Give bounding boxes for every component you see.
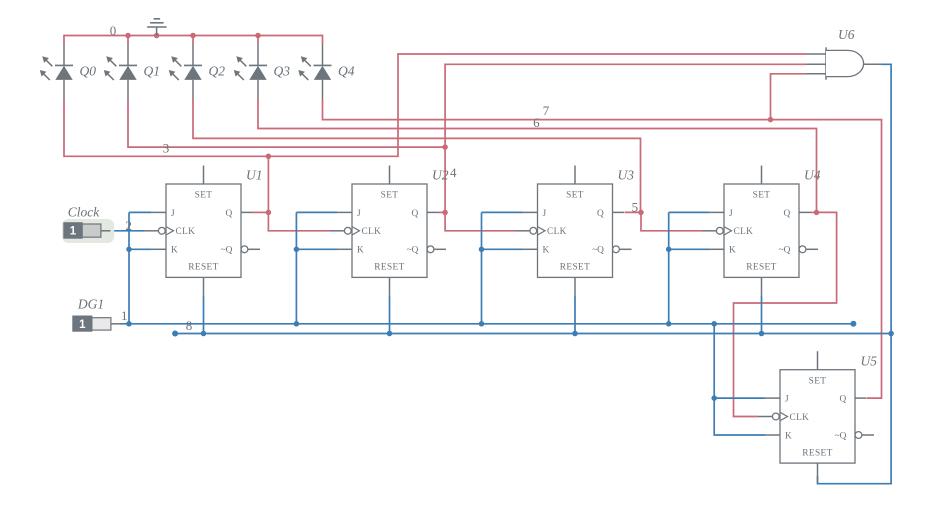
wire: U2.Q down to U3.CLK xyxy=(445,212,515,230)
wire: U4.Q output lead wire xyxy=(811,211,817,213)
ground symbol xyxy=(147,19,167,36)
svg-text:SET: SET xyxy=(566,191,584,201)
junction on net 8 xyxy=(759,331,765,337)
JK flip-flop U4 xyxy=(702,166,818,296)
wire: U2 K input wire xyxy=(296,248,337,250)
svg-text:Q0: Q0 xyxy=(80,63,97,78)
svg-text:J: J xyxy=(729,209,733,219)
svg-text:6: 6 xyxy=(533,115,540,130)
junction U2.Q/L4 xyxy=(442,144,448,150)
wire: LED Q2 top to rail xyxy=(192,36,194,45)
wire: U2 J input wire xyxy=(296,211,337,213)
wire: ground rail net 0 xyxy=(64,36,323,45)
svg-text:CLK: CLK xyxy=(362,227,382,237)
wire: U2.Q output lead wire xyxy=(439,211,446,213)
svg-text:Q: Q xyxy=(225,209,232,219)
svg-text:Q4: Q4 xyxy=(338,63,355,78)
junction K row xyxy=(294,247,300,253)
junction U1.Q xyxy=(266,210,272,216)
LED Q1 xyxy=(104,44,137,99)
AND gate U6 xyxy=(807,47,882,79)
junction net1/U5 tie xyxy=(711,321,717,327)
svg-text:RESET: RESET xyxy=(746,263,776,273)
junction K row xyxy=(126,247,132,253)
junction on ground rail xyxy=(154,33,160,39)
svg-text:J: J xyxy=(543,209,547,219)
svg-text:K: K xyxy=(785,431,792,441)
junction net8/U6 output xyxy=(888,331,894,337)
svg-text:DG1: DG1 xyxy=(77,297,104,312)
svg-text:SET: SET xyxy=(195,191,213,201)
junction U5.J xyxy=(711,395,717,401)
wire: net 7 Q4 LED to U5.Q xyxy=(323,99,882,398)
svg-text:Q: Q xyxy=(411,209,418,219)
svg-text:K: K xyxy=(357,246,364,256)
svg-text:Q3: Q3 xyxy=(274,63,291,78)
svg-text:~Q: ~Q xyxy=(592,246,604,256)
wire: U2.Q vertical up to AND input 2 xyxy=(445,64,806,212)
wire: Q2 LED down to U3.Q xyxy=(193,99,641,212)
svg-text:U4: U4 xyxy=(804,168,821,183)
junction U1.Q/L5 xyxy=(266,154,272,160)
wire: U3 K input wire xyxy=(482,248,523,250)
wire: U3 J/K tie-down vertical xyxy=(481,212,483,323)
svg-text:J: J xyxy=(785,395,789,405)
wire: U3 J input wire xyxy=(482,211,523,213)
svg-text:Q: Q xyxy=(783,209,790,219)
svg-text:J: J xyxy=(171,209,175,219)
svg-text:1: 1 xyxy=(70,226,77,238)
wire: U4 J input wire xyxy=(669,211,709,213)
svg-text:2: 2 xyxy=(125,218,132,233)
svg-text:J: J xyxy=(357,209,361,219)
svg-text:K: K xyxy=(171,246,178,256)
svg-text:RESET: RESET xyxy=(560,263,590,273)
svg-text:U2: U2 xyxy=(432,168,449,183)
digital constant DG1 xyxy=(73,316,121,331)
wire: net 2 Clock to U1.CLK xyxy=(111,230,145,232)
LED Q0 xyxy=(40,44,73,99)
junction U3.Q xyxy=(638,210,644,216)
svg-text:Q1: Q1 xyxy=(144,63,161,78)
wire: U1 RESET drop to net 8 xyxy=(203,296,205,334)
svg-text:~Q: ~Q xyxy=(221,246,233,256)
svg-text:U1: U1 xyxy=(246,168,263,183)
svg-text:U6: U6 xyxy=(838,27,855,42)
svg-text:CLK: CLK xyxy=(734,227,754,237)
junction on net 1 xyxy=(126,321,132,327)
wire: U1 K input wire xyxy=(129,248,151,250)
svg-text:3: 3 xyxy=(163,141,170,156)
junction U2.Q xyxy=(442,210,448,216)
svg-text:CLK: CLK xyxy=(790,413,810,423)
wire end on net 1 xyxy=(850,321,856,327)
wire: LED Q3 top to rail xyxy=(257,36,259,45)
svg-text:7: 7 xyxy=(543,103,550,118)
svg-text:RESET: RESET xyxy=(802,448,832,458)
wire: U4 K input wire xyxy=(669,248,709,250)
svg-text:Clock: Clock xyxy=(68,205,100,220)
junction K row xyxy=(479,247,485,253)
wire: U4 J/K tie-down vertical xyxy=(668,212,670,323)
svg-text:RESET: RESET xyxy=(188,263,218,273)
svg-text:4: 4 xyxy=(450,165,457,180)
wire: U1 J input wire xyxy=(129,211,151,213)
svg-text:SET: SET xyxy=(381,191,399,201)
svg-text:~Q: ~Q xyxy=(835,431,847,441)
svg-text:U3: U3 xyxy=(618,168,635,183)
junction on ground rail xyxy=(255,33,261,39)
JK flip-flop U3 xyxy=(516,166,632,296)
svg-text:Q: Q xyxy=(597,209,604,219)
svg-text:RESET: RESET xyxy=(374,263,404,273)
wire: net 1 DG1 bus line xyxy=(121,323,854,325)
wire: U4 RESET drop to net 8 xyxy=(761,296,763,334)
wire: LED Q1 top to rail xyxy=(127,36,129,45)
svg-text:1: 1 xyxy=(79,319,86,331)
JK flip-flop U2 xyxy=(330,166,446,296)
wire: net 7 branch up to AND input 3 xyxy=(771,74,807,120)
LED Q2 xyxy=(169,44,202,99)
wire: Q3 LED down to U4.Q xyxy=(258,99,817,212)
svg-text:CLK: CLK xyxy=(176,227,196,237)
junction on net 1 xyxy=(294,321,300,327)
svg-text:5: 5 xyxy=(632,200,639,215)
LED Q3 xyxy=(234,44,267,99)
wire: U2 RESET drop to net 8 xyxy=(389,296,391,334)
svg-text:U5: U5 xyxy=(861,353,878,368)
junction net7/AND input3 xyxy=(768,117,774,123)
LED Q4 xyxy=(298,44,331,99)
wire: U6 output to net 8 and U5.RESET xyxy=(818,64,892,483)
svg-text:1: 1 xyxy=(121,308,128,323)
wire: U3.Q down to U4.CLK xyxy=(641,212,702,230)
wire: Q1 LED down to net of U2.Q xyxy=(128,99,445,147)
junction on net 8 xyxy=(572,331,578,337)
svg-text:Q2: Q2 xyxy=(209,63,226,78)
svg-text:8: 8 xyxy=(186,318,193,333)
svg-text:0: 0 xyxy=(110,23,117,38)
wire: U3 RESET drop to net 8 xyxy=(574,296,576,334)
junction on net 8 xyxy=(387,331,393,337)
svg-text:SET: SET xyxy=(753,191,771,201)
junction on net 8 xyxy=(201,331,207,337)
svg-text:K: K xyxy=(543,246,550,256)
junction K row xyxy=(666,247,672,253)
wire end on net 8 xyxy=(172,331,178,337)
svg-text:~Q: ~Q xyxy=(407,246,419,256)
wire: U5 J/K tie vertical from net 1 xyxy=(714,324,765,435)
svg-text:~Q: ~Q xyxy=(779,246,791,256)
svg-text:SET: SET xyxy=(809,376,827,386)
junction on ground rail xyxy=(190,33,196,39)
junction on ground rail xyxy=(125,33,131,39)
junction on net 1 xyxy=(479,321,485,327)
svg-text:K: K xyxy=(729,246,736,256)
wire: U5 J input wire xyxy=(714,397,765,399)
wire: U1 J/K tie-down vertical xyxy=(128,212,130,323)
wire: net 3? Q0 LED to U1.Q line and AND input 1 xyxy=(64,54,807,156)
clock source Clock xyxy=(62,219,114,243)
wire: U4.Q to U5.CLK xyxy=(734,212,837,416)
wire: U3.Q output lead wire xyxy=(625,211,642,213)
JK flip-flop U5 xyxy=(758,351,874,481)
JK flip-flop U1 xyxy=(144,166,260,296)
svg-text:Q: Q xyxy=(839,395,846,405)
wire: U1.Q output lead wire xyxy=(253,211,269,213)
junction on net 1 xyxy=(666,321,672,327)
junction U4.Q xyxy=(814,210,820,216)
wire: net 8 RESET bus line xyxy=(175,333,891,335)
svg-text:CLK: CLK xyxy=(547,227,567,237)
wire: U1.Q to L5 and down to U2.CLK xyxy=(268,156,330,231)
wire: U2 J/K tie-down vertical xyxy=(295,212,297,323)
